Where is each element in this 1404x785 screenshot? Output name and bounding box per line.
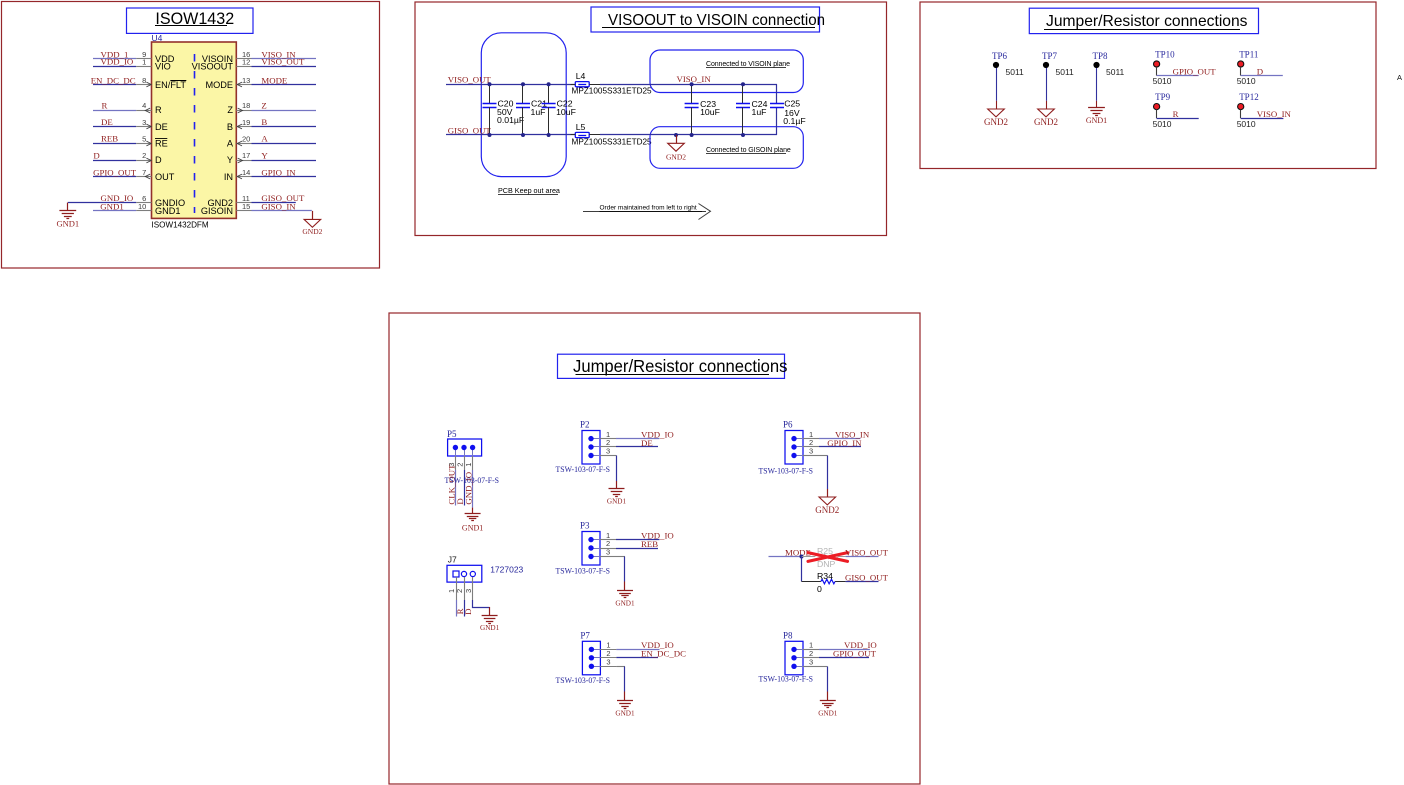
connector P7 pin 1 contact (589, 647, 601, 652)
net label GND_IO (101, 193, 134, 203)
svg-text:P3: P3 (580, 521, 590, 531)
capacitor C24 value 1uF (752, 107, 767, 117)
svg-text:P6: P6 (783, 420, 793, 430)
svg-text:5010: 5010 (1153, 76, 1172, 86)
pin lead U4 pin 17 (236, 160, 251, 162)
wire from TP8 down (1096, 68, 1098, 101)
connector P2 pin number 3 (606, 447, 610, 456)
svg-text:TP8: TP8 (1093, 51, 1109, 61)
svg-text:GISO_IN: GISO_IN (261, 201, 296, 211)
pin number 18 (242, 101, 250, 110)
svg-text:1727023: 1727023 (490, 565, 523, 575)
ferrite bead L5 leads (571, 134, 576, 136)
svg-text:3: 3 (606, 658, 610, 667)
capacitor C21 value 1uF (531, 107, 546, 117)
pin lead U4 pin 16 (236, 58, 251, 60)
pin lead U4 pin 3 (136, 126, 151, 128)
pin lead U4 pin 4 (136, 110, 151, 112)
resistor R34 leads (802, 581, 846, 583)
capacitor C20 value 0.01µF (497, 115, 524, 125)
svg-text:GND2: GND2 (815, 505, 839, 515)
wire net GPIO_OUT at TP10 (1157, 75, 1199, 77)
pin arrow U4 pin 14 (237, 174, 242, 179)
svg-text:OUT: OUT (155, 172, 175, 182)
junction on GISO_OUT at C20 (488, 133, 492, 137)
DNP red X over R25 (808, 553, 848, 562)
wire net EN_DC_DC (left of U4) (93, 84, 136, 86)
net label GPIO_OUT at P8 (833, 649, 877, 659)
wire net EN_DC_DC at P7 pin 2 (616, 657, 658, 659)
capacitor C23 plates (685, 104, 699, 108)
pin number 6 (142, 194, 146, 203)
pin lead U4 pin 1 (136, 66, 151, 68)
resistor R25 body (DNP) (815, 554, 838, 558)
IC pin name MODE (205, 80, 233, 90)
pin number 19 (242, 118, 250, 127)
svg-text:IN: IN (224, 172, 233, 182)
svg-text:GPIO_OUT: GPIO_OUT (93, 167, 137, 177)
wire net Z (right of U4) (252, 110, 317, 112)
wire net GISO_IN (right of U4) (252, 210, 312, 212)
wire net GPIO_IN (right of U4) (252, 176, 317, 178)
wire GND1 stub under P3 (624, 582, 626, 591)
svg-text:GND1: GND1 (615, 599, 635, 607)
svg-text:GND1: GND1 (56, 218, 79, 228)
svg-text:R: R (102, 100, 108, 110)
title box Jumper/Resistor connections (bottom) (558, 354, 785, 378)
pin arrow U4 pin 18 (238, 108, 243, 113)
svg-text:REB: REB (101, 134, 118, 144)
test point TP7 label (1042, 51, 1058, 61)
title text VISOOUT to VISOIN connection (608, 12, 825, 29)
svg-text:TP6: TP6 (992, 51, 1008, 61)
ground label GND1 under P2 (607, 498, 627, 506)
connector P3 body (582, 532, 600, 566)
pin number 17 (242, 151, 250, 160)
net label GISO_OUT at R34 (845, 572, 889, 582)
svg-text:TP7: TP7 (1042, 51, 1058, 61)
block 4 border (Jumper/Resistor connections bottom) (389, 313, 920, 784)
svg-text:TP11: TP11 (1239, 49, 1258, 59)
net label VDD_IO at P3 (641, 530, 674, 540)
connector P6 body (785, 431, 803, 465)
connector J7 pin 2 pad (461, 571, 466, 576)
capacitor C22 plates (542, 104, 556, 108)
svg-text:A: A (227, 138, 234, 148)
capacitor C20 value 50V (497, 107, 513, 117)
net label VISO_IN (677, 74, 712, 84)
connector P5 refdes (447, 429, 457, 439)
connector P8 pin number 2 (809, 649, 813, 658)
ferrite bead L4 refdes (576, 71, 586, 81)
svg-text:0.01µF: 0.01µF (497, 115, 524, 125)
pin number 20 (242, 134, 250, 143)
svg-text:1: 1 (464, 463, 473, 467)
svg-text:VDD_IO: VDD_IO (101, 57, 134, 67)
pin lead U4 pin 18 (236, 110, 251, 112)
ground label GND1 under P8 (818, 709, 838, 717)
connector P6 pin 1 contact (791, 436, 803, 441)
net label VDD_IO at P8 (844, 640, 877, 650)
wire net VDD_IO (left of U4) (93, 66, 136, 68)
ferrite bead L4 leads (571, 84, 576, 86)
svg-text:L4: L4 (576, 71, 586, 81)
connector J7 pin 3 pad (470, 571, 475, 576)
pin number 16 (242, 50, 250, 59)
ground GND1 under P5 (465, 514, 481, 521)
title box VISOOUT to VISOIN connection (591, 7, 820, 32)
svg-text:EN_DC_DC: EN_DC_DC (641, 649, 686, 659)
connector P5 pin number 2 (456, 463, 465, 467)
svg-text:TSW-103-07-F-S: TSW-103-07-F-S (556, 566, 611, 576)
pin arrow U4 pin 3 (146, 124, 151, 129)
pin lead U4 pin 15 (236, 210, 251, 212)
connector P7 pin number 1 (606, 641, 610, 650)
net label MODE (785, 547, 811, 557)
net label VISO_IN at TP12 (1257, 109, 1292, 119)
wire net R (left of U4) (93, 110, 136, 112)
test point TP9 value 5010 (1153, 119, 1172, 129)
IC pin name RE (155, 138, 168, 148)
IC U4 part number label ISOW1432DFM (152, 220, 209, 229)
ground label GND1 under P5 (462, 524, 483, 533)
connector P6 pin 2 contact (791, 444, 803, 449)
rounded box Connected to GISOIN plane (650, 127, 803, 169)
svg-text:DNP: DNP (817, 559, 836, 569)
junction on VISO_OUT at C21 (521, 82, 525, 86)
connector P8 refdes (783, 631, 793, 641)
pin number 15 (242, 202, 250, 211)
IC pin name GNDIO (155, 198, 185, 208)
capacitor C20 bottom lead (489, 107, 491, 135)
test point TP11 lead (1240, 67, 1242, 76)
net label GPIO_OUT at TP10 (1173, 66, 1217, 76)
pin lead U4 pin 19 (236, 126, 251, 128)
wire net B (right of U4) (252, 126, 317, 128)
op-amp U4 refdes label (152, 33, 163, 43)
connector P7 part TSW-103-07-F-S (556, 675, 611, 685)
net label D (93, 150, 99, 160)
svg-text:GPIO_IN: GPIO_IN (261, 167, 296, 177)
pin arrow U4 pin 5 (146, 141, 151, 146)
connector P6 pin number 3 (809, 447, 813, 456)
net label EN_DC_DC (91, 75, 136, 85)
capacitor C22 refdes (557, 98, 573, 108)
net label Y (261, 150, 268, 160)
connector P2 pin number 1 (606, 430, 610, 439)
net label REB (101, 134, 118, 144)
rounded box Connected to VISOIN plane (650, 50, 803, 93)
svg-text:VISO_OUT: VISO_OUT (845, 547, 889, 557)
net label VDD_1 (101, 49, 129, 59)
connector P2 pin 3 lead (600, 455, 616, 457)
resistor R34 refdes (817, 571, 833, 581)
capacitor C23 value 10uF (700, 107, 720, 117)
svg-text:DE: DE (641, 438, 653, 448)
block 3 border (Jumper/Resistor connections top right) (920, 2, 1376, 169)
wire GND1 stub under P8 (827, 692, 829, 701)
resistor R25 refdes (DNP gray) (817, 546, 833, 556)
svg-text:R34: R34 (817, 571, 833, 581)
IC pin name DE (155, 122, 168, 132)
pin lead U4 pin 7 (136, 176, 151, 178)
svg-text:Order maintained from left to: Order maintained from left to right (600, 205, 697, 212)
svg-text:VISO_OUT: VISO_OUT (261, 57, 305, 67)
pin number 2 (142, 151, 146, 160)
IC pin name A (227, 138, 234, 148)
wire net VDD_IO at P2 pin 1 (616, 438, 660, 440)
connector P3 pin 3 lead (600, 556, 616, 558)
connector P2 pin number 2 (606, 438, 610, 447)
wire net GPIO_IN at P6 pin 2 (819, 446, 861, 448)
connector P5 pin 1 contact (470, 445, 475, 456)
connector P7 pin 1 lead (600, 649, 616, 651)
IC pin name VIO (155, 62, 171, 72)
svg-text:4: 4 (142, 101, 146, 110)
ground GND1 symbol (left of U4) (67, 203, 69, 211)
connector P7 refdes (580, 631, 590, 641)
block 2 border (VISOOUT to VISOIN connection) (415, 2, 887, 236)
svg-text:5010: 5010 (1237, 76, 1256, 86)
wire net VDD_IO at P3 pin 1 (616, 539, 660, 541)
frame zone letter A (1397, 73, 1402, 82)
wire net GISO_OUT at R34 (846, 581, 879, 583)
capacitor C23 top lead (691, 84, 693, 103)
connector P8 pin 1 contact (791, 647, 803, 652)
junction top at C24 (741, 82, 745, 86)
test point TP7 pad (1043, 62, 1049, 68)
ground label GND2 (302, 227, 322, 236)
test point TP10 lead (1156, 67, 1158, 76)
svg-text:GND2: GND2 (666, 152, 686, 161)
pin arrow U4 pin 19 (237, 124, 242, 129)
svg-text:8: 8 (142, 76, 146, 85)
test point TP8 value 5011 (1106, 67, 1125, 77)
connector P2 pin 3 contact (588, 453, 600, 458)
connector P2 part TSW-103-07-F-S (556, 464, 611, 474)
svg-text:3: 3 (606, 447, 610, 456)
connector P3 part TSW-103-07-F-S (556, 566, 611, 576)
connector P3 pin number 2 (606, 539, 610, 548)
svg-text:20: 20 (242, 134, 250, 143)
connector P7 pin number 2 (606, 649, 610, 658)
net label GISO_IN (261, 201, 296, 211)
svg-text:3: 3 (606, 548, 610, 557)
pin lead U4 pin 12 (236, 66, 251, 68)
ground label GND2 under P6 (815, 505, 839, 515)
svg-text:L5: L5 (576, 122, 586, 132)
connector J7 pin number 1 (rotated) (447, 589, 456, 593)
capacitor C22 top lead (548, 84, 550, 103)
test point TP11 label (1239, 49, 1258, 59)
svg-text:3: 3 (809, 447, 813, 456)
test point TP6 pad (993, 62, 999, 68)
net label R (102, 100, 108, 110)
svg-text:VIO: VIO (155, 62, 171, 72)
ground label GND2 under TP7 (1034, 117, 1058, 127)
connector P7 pin 3 contact (589, 664, 601, 669)
IC pin name GND1 (155, 206, 181, 216)
svg-text:DE: DE (101, 117, 113, 127)
ground GND1 under TP8 (1088, 108, 1105, 116)
IC pin name VDD (155, 54, 175, 64)
pin arrow U4 pin 20 (237, 141, 242, 146)
resistor R34 body (821, 579, 835, 584)
junction on GISO_OUT at C21 (521, 133, 525, 137)
title text Jumper/Resistor connections (bottom) (573, 357, 788, 376)
svg-text:5010: 5010 (1237, 119, 1256, 129)
IC pin name GISOIN (201, 206, 233, 216)
power ground GND2 under TP6 (988, 109, 1005, 117)
svg-text:GND2: GND2 (302, 227, 322, 236)
net label R at TP9 (1173, 109, 1179, 119)
test point TP12 value 5010 (1237, 119, 1256, 129)
net label MODE (261, 75, 287, 85)
svg-text:Jumper/Resistor connections: Jumper/Resistor connections (1046, 13, 1248, 30)
test point TP7 value 5011 (1056, 67, 1075, 77)
net label R at J7 (rotated) (455, 608, 465, 614)
resistor R34 value 0 (817, 584, 822, 594)
wire GND1 stub under J7 (489, 607, 491, 616)
capacitor C21 top lead (522, 84, 524, 103)
wire net GPIO_OUT at P8 pin 2 (819, 657, 869, 659)
net label VISO_OUT at R25 (845, 547, 889, 557)
pin lead U4 pin 8 (136, 84, 151, 86)
PCB keep out area rounded box (481, 33, 566, 177)
pin lead U4 pin 2 (136, 160, 151, 162)
svg-text:Jumper/Resistor connections: Jumper/Resistor connections (573, 357, 788, 376)
connector P6 pin 3 contact (791, 453, 803, 458)
pin number 7 (142, 168, 146, 177)
connector P3 pin 1 contact (588, 537, 600, 542)
net label VDD_IO at P2 (641, 429, 674, 439)
capacitor C21 plates (516, 104, 530, 108)
connector P8 pin 3 lead (803, 666, 819, 668)
svg-text:VISOOUT: VISOOUT (192, 62, 234, 72)
connector P3 pin 3 contact (588, 554, 600, 559)
svg-text:5011: 5011 (1056, 67, 1075, 77)
wire net GISO_OUT (right of U4) (252, 202, 296, 204)
connector P8 body (785, 641, 803, 675)
svg-text:J7: J7 (448, 554, 457, 564)
net label VISO_IN (261, 49, 296, 59)
svg-text:1: 1 (142, 58, 146, 67)
svg-text:MODE: MODE (205, 80, 233, 90)
svg-text:VISO_OUT: VISO_OUT (448, 75, 492, 85)
connector J7 pin 1 lead and wire R (456, 577, 458, 617)
connector P6 part TSW-103-07-F-S (759, 465, 814, 475)
IC U4 body ISOW1432 (152, 42, 237, 218)
connector P2 pin 2 contact (588, 444, 600, 449)
capacitor C24 top lead (742, 84, 744, 103)
ground label GND1 (56, 218, 79, 228)
capacitor C22 value 10uF (556, 107, 576, 117)
pin lead U4 pin 9 (136, 58, 151, 60)
resistor R25 leads (802, 556, 816, 558)
connector J7 body (447, 565, 482, 582)
svg-text:D: D (93, 150, 99, 160)
title text ISOW1432 (155, 10, 234, 28)
svg-text:EN/FLT: EN/FLT (155, 80, 186, 90)
IC pin name VISOOUT (192, 62, 234, 72)
pin number 14 (242, 168, 250, 177)
connector P7 pin 2 lead (600, 657, 616, 659)
svg-text:1uF: 1uF (752, 107, 767, 117)
ground label GND2 (block 2) (666, 152, 686, 161)
wire GND1 stub under P7 (624, 692, 626, 701)
svg-text:A: A (261, 134, 268, 144)
svg-text:TP9: TP9 (1155, 92, 1171, 102)
wire net REB at P3 pin 2 (616, 548, 658, 550)
net label GISO_OUT (448, 125, 492, 135)
capacitor C23 bottom lead (691, 107, 693, 135)
wire net D at TP11 (1241, 75, 1283, 77)
svg-text:P8: P8 (783, 631, 793, 641)
pin lead U4 pin 20 (236, 143, 251, 145)
pin number 13 (242, 76, 250, 85)
wire GND1 stub under P2 (616, 481, 618, 489)
svg-text:MPZ1005S331ETD25: MPZ1005S331ETD25 (572, 87, 653, 96)
pin number 3 (142, 118, 146, 127)
ground GND1 under P7 (617, 701, 633, 709)
svg-text:10: 10 (138, 202, 146, 211)
ferrite bead L5 body (575, 132, 589, 137)
wire GND1 stub under P5 (472, 508, 474, 514)
connector P3 pin 2 contact (588, 545, 600, 550)
net label A (261, 134, 268, 144)
net label VISO_OUT (261, 57, 305, 67)
capacitor C20 refdes (498, 98, 514, 108)
test point TP6 label (992, 51, 1008, 61)
junction on VISO_OUT at C22 (547, 82, 551, 86)
IC pin name D (155, 155, 162, 165)
wire net MODE (right of U4) (252, 84, 317, 86)
capacitor C21 refdes (531, 98, 547, 108)
connector J7 pin number 3 (rotated) (464, 589, 473, 593)
pin arrow U4 pin 17 (238, 158, 243, 163)
wire net R at TP9 (1157, 118, 1199, 120)
test point TP6 value 5011 (1006, 67, 1025, 77)
wire GISO_OUT horizontal (446, 134, 575, 136)
connector P2 pin 2 lead (600, 446, 616, 448)
ferrite bead L5 refdes (576, 122, 586, 132)
connector P8 pin 3 contact (791, 664, 803, 669)
test point TP11 value 5010 (1237, 76, 1256, 86)
capacitor C25 value 16V (784, 108, 800, 118)
svg-text:5011: 5011 (1006, 67, 1025, 77)
svg-text:GND2: GND2 (1034, 117, 1058, 127)
net label GPIO_OUT (93, 167, 137, 177)
svg-text:14: 14 (242, 168, 250, 177)
connector P7 pin number 3 (606, 658, 610, 667)
connector J7 pin 2 lead and wire D (464, 577, 466, 617)
connector P8 part TSW-103-07-F-S (759, 674, 814, 684)
svg-text:P7: P7 (580, 631, 590, 641)
connector P6 pin 3 lead (803, 455, 819, 457)
svg-text:2: 2 (142, 151, 146, 160)
wire net Y (right of U4) (252, 160, 317, 162)
wire net VISO_IN at TP12 (1241, 118, 1284, 120)
svg-text:GND1: GND1 (615, 710, 635, 718)
capacitor C23 refdes (700, 99, 716, 109)
svg-text:GND1: GND1 (818, 709, 838, 717)
connector P8 pin 2 lead (803, 657, 819, 659)
ground GND1 under J7 (482, 616, 498, 624)
IC pin name VISOIN (202, 54, 233, 64)
net label CLK_OUT (rotated) (447, 464, 457, 505)
IC pin name GND2 (207, 198, 233, 208)
connector P3 pin number 3 (606, 548, 610, 557)
